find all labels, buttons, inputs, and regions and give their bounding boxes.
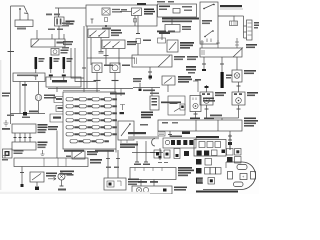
wire resistor feed vertical — [243, 16, 245, 38]
headlamp left bulb — [94, 65, 100, 71]
junction dark dot — [149, 76, 153, 79]
wire drop2 — [36, 182, 38, 186]
heater ctl marks2 — [152, 101, 158, 103]
flasher F1 body — [102, 8, 110, 15]
fuse F62 label — [87, 133, 92, 135]
fuse F54 label — [112, 126, 117, 128]
small box pair dot — [156, 152, 159, 156]
dimmer switch label2 — [111, 32, 122, 34]
connector stub C101 — [56, 106, 63, 112]
wire hvac drop3 — [229, 131, 231, 140]
ignition main relay contact — [121, 124, 130, 136]
label left col wires2 — [62, 25, 69, 27]
motor M2 body — [232, 92, 245, 105]
gauge dark dot — [163, 189, 167, 192]
buzzer label — [61, 50, 69, 52]
wire resistor stub1 — [244, 25, 247, 27]
inline fuse label — [143, 40, 151, 42]
wire center vertical x87 — [86, 26, 88, 88]
panel row2 dark — [196, 159, 202, 165]
hvac inner mark b — [172, 122, 178, 124]
label small left4 — [140, 124, 148, 126]
hvac label right r2 — [244, 120, 258, 122]
relay K1 label2 — [180, 45, 193, 47]
wire link A down — [35, 69, 37, 73]
ac drop1 end dark — [202, 69, 206, 71]
wiper lower label2 — [128, 181, 140, 183]
indicator lamp cross — [59, 174, 64, 179]
label right col x188 b — [187, 59, 196, 61]
hvac wide box — [158, 120, 242, 131]
panel lobe left edge — [225, 162, 227, 168]
ignition switch SW1 bars2 — [60, 19, 62, 25]
flasher relay contact — [32, 174, 41, 181]
cluster bottom labels — [138, 181, 147, 183]
wiper motor inner dot — [109, 183, 112, 186]
label ac harness — [143, 90, 155, 92]
fusible link C bar — [63, 57, 66, 69]
blower motor circle — [193, 103, 198, 108]
label on left vertical — [2, 93, 10, 95]
drop1 tick — [20, 172, 24, 174]
convenience center label col2 — [38, 127, 48, 129]
module inner box — [173, 9, 180, 14]
connector strip divider — [54, 39, 56, 47]
motor M1 label2 — [215, 95, 224, 97]
drop2 dark dot — [35, 187, 39, 191]
fuse symbol — [105, 18, 108, 22]
link A connector tick — [34, 75, 38, 77]
wire relay top label2 — [168, 31, 175, 33]
motor M1 rotor dot — [206, 100, 208, 102]
wire cc drop1 — [14, 133, 16, 142]
bus box divider1 — [43, 158, 45, 167]
resistor assembly box — [168, 96, 185, 115]
fuse F64 label — [112, 133, 117, 135]
headlamp right box — [110, 63, 120, 73]
relay K2 label — [178, 76, 191, 78]
fuse F32 label — [87, 112, 92, 114]
bulkhead vertical a tick — [82, 67, 86, 69]
wire stair from left a — [71, 48, 84, 78]
fuse F72 — [83, 140, 90, 143]
gauge lamp a — [136, 187, 141, 192]
wire relay drop — [161, 33, 163, 40]
wire x146 upper — [145, 141, 147, 153]
fuse F44 — [104, 119, 111, 122]
pair tick a — [106, 158, 110, 160]
labels under ticks2 — [143, 164, 150, 166]
wire wiper switch down — [134, 16, 136, 27]
m2 feed tick — [237, 85, 241, 87]
wire blower motor down — [195, 112, 197, 119]
fusible link A label — [39, 58, 45, 60]
fuse F32 — [79, 112, 86, 115]
fuse F41 label — [74, 119, 79, 121]
label top tiny a — [7, 115, 14, 117]
wire drop x146 — [145, 153, 147, 163]
tick near block — [120, 105, 125, 111]
tiny marks left hazard — [66, 156, 71, 158]
ground G1 label — [2, 128, 10, 130]
relay K1 coil box — [158, 38, 166, 43]
relay cluster dark dot — [222, 150, 226, 154]
fuse F54 — [104, 126, 111, 129]
panel slot c — [215, 142, 221, 148]
relay K2 label2 — [178, 79, 192, 81]
wire horizontal y88 right — [133, 87, 160, 89]
cc lower label — [38, 142, 48, 144]
blower resistor label3 — [254, 27, 258, 29]
wire bulkhead down — [56, 87, 58, 92]
wire resistor stub3 — [244, 37, 247, 39]
fuse F53 label — [100, 126, 105, 128]
label under washer — [159, 32, 170, 34]
cluster label right r4 — [178, 175, 188, 177]
ticks left of bus — [3, 153, 7, 159]
wire drop x137 — [136, 153, 138, 163]
ignition switch label — [66, 21, 75, 23]
drop1 arrow dark — [21, 184, 24, 187]
panel slot a — [199, 142, 205, 148]
fuse F34 — [104, 112, 111, 115]
wire mid col from junction — [24, 82, 26, 114]
wire relay top label — [157, 31, 166, 33]
heater label long — [161, 102, 181, 104]
heater ctl marks3 — [152, 104, 158, 106]
dimmer contact 1 — [90, 31, 97, 37]
lobe slot oval a — [237, 165, 247, 170]
wire link B down — [50, 69, 52, 73]
fuse F41 — [66, 119, 73, 122]
ignition switch SW1 bars — [56, 19, 58, 25]
ground G2 symbol — [41, 150, 45, 156]
headlamp contact 2 — [113, 42, 120, 48]
ac long box bracket — [202, 50, 204, 55]
fuse F11 — [66, 98, 73, 101]
convenience center box lower — [12, 142, 36, 150]
fuse F33 label — [100, 112, 105, 114]
ground G1 symbol — [4, 120, 9, 126]
fuse F21 label — [74, 105, 79, 107]
wiper switch SW2 contact — [133, 10, 140, 15]
panel row4 inner dark — [210, 179, 213, 182]
junction block right box — [46, 77, 81, 87]
motor M1 terminals — [202, 93, 205, 95]
instrument bus box — [14, 158, 88, 167]
heater ctl small box — [150, 96, 159, 110]
hvac divider2 — [217, 120, 219, 131]
fuse F73 label — [104, 140, 109, 142]
wire cc drop2 — [19, 133, 21, 142]
fusible link B bar — [50, 57, 53, 69]
connector strip box lower left — [31, 39, 65, 47]
label to turn signal2 — [60, 173, 72, 175]
label dark band row2 — [162, 21, 192, 23]
long connector label right — [174, 56, 185, 58]
wire module down — [171, 17, 173, 25]
wire pair down b — [117, 150, 119, 178]
wiper lower label3 — [128, 184, 137, 186]
relay K1 label — [180, 42, 194, 44]
bulkhead label dark — [52, 80, 67, 82]
bus box divider2 — [57, 158, 59, 167]
flasher label — [46, 173, 57, 175]
panel row2 outline — [205, 159, 212, 166]
wire col c from junction — [38, 82, 40, 95]
ignition sw connector circle — [35, 94, 41, 100]
fuse F43 label — [100, 119, 105, 121]
wire horizontal collector — [11, 113, 46, 115]
fuse F24 — [104, 105, 111, 108]
label HOT AT ALL TIMES top — [137, 3, 146, 5]
washer pump label — [182, 26, 191, 28]
motor M1 rotor — [204, 98, 210, 104]
headlamp switch label — [127, 41, 137, 43]
lamp right cap tick — [112, 80, 119, 82]
module label d — [184, 10, 192, 12]
lamp left cap tick — [94, 80, 101, 82]
hvac drop1 tick — [168, 134, 172, 136]
contact dot d — [212, 30, 214, 32]
panel row3 strip b — [210, 168, 216, 175]
resistor assembly label — [170, 103, 178, 105]
cluster label right r1 — [178, 167, 192, 169]
junction dot k2 — [139, 89, 142, 92]
gauge lamp a cross — [138, 189, 141, 192]
panel dark fuse row c outline — [212, 150, 218, 156]
buzzer label2 — [61, 52, 68, 54]
x137 tick — [135, 161, 139, 163]
fuse F14 label — [112, 98, 117, 100]
fuse F72 label — [91, 140, 96, 142]
node antenna stub — [19, 10, 21, 15]
wiper motor inner box — [107, 181, 114, 187]
fuse F52 — [79, 126, 86, 129]
motor M1 body — [200, 92, 213, 105]
cc lower label2 — [38, 144, 47, 146]
assembly connector square — [180, 104, 185, 110]
wire strip left — [150, 152, 155, 154]
contact dot b — [213, 4, 215, 6]
x160 dark dot — [159, 156, 162, 159]
link B connector tick — [49, 75, 53, 77]
gauges label right2 — [174, 189, 186, 191]
fuse F53 — [92, 126, 99, 129]
headlamp contact 1 — [104, 42, 111, 48]
label row under motor2 — [204, 118, 214, 120]
label pnk blk — [29, 111, 38, 113]
ticks pair x162 — [158, 162, 168, 164]
fuse F51 — [66, 126, 73, 129]
wiper motor inner mark — [117, 181, 121, 186]
blower resistor label — [254, 22, 259, 24]
horn H1 legs — [20, 13, 28, 20]
bus label right2 — [90, 162, 101, 164]
hvac drop2 dark label — [182, 132, 190, 135]
resistor sym marks — [159, 133, 164, 135]
label on left vertical2 — [2, 95, 9, 97]
wire switch output down — [58, 26, 60, 39]
wire dimmer drop2 — [100, 38, 102, 52]
label wire gauge — [121, 9, 127, 11]
wiper switch label block — [144, 9, 154, 11]
relay K1 box — [167, 40, 178, 52]
wiper fuse tick — [136, 33, 140, 35]
fuse F61 label — [74, 133, 79, 135]
panel caption bottom — [196, 191, 238, 193]
cluster wide box — [130, 168, 176, 180]
wiper lower label — [128, 179, 139, 181]
panel dark fuse row b — [204, 151, 209, 156]
wire m2 feed — [238, 82, 240, 92]
wire x137 upper — [136, 141, 138, 153]
panel row4 outline box — [208, 178, 215, 185]
motor M2 terminal2 — [239, 93, 242, 95]
blower motor marks — [193, 98, 196, 101]
blower resistor R1 body — [247, 20, 253, 40]
steering column box — [86, 5, 157, 26]
wire x152 drop — [151, 88, 153, 97]
fuse F23 — [92, 105, 99, 108]
fuse block outline — [63, 92, 116, 149]
strip dark sq a — [171, 140, 175, 145]
label motors bus — [210, 115, 222, 117]
label caption left dark — [128, 132, 146, 134]
fuse block grid — [64, 98, 117, 152]
M2 tick — [237, 108, 241, 110]
label left of k2 — [133, 78, 142, 80]
connector C bracket — [152, 139, 155, 147]
wire top stub — [234, 15, 244, 17]
long connector inner marks — [135, 58, 137, 65]
fuse panel upper box — [194, 140, 226, 157]
connector circle label — [44, 95, 55, 97]
label to turn signal — [60, 171, 74, 173]
inline fuse symbol — [136, 39, 141, 44]
wire ignition switch drop — [58, 8, 60, 17]
headlamp left label — [104, 65, 113, 67]
wire ac drop3 — [236, 57, 238, 70]
washer pump box — [165, 25, 180, 33]
long connector box mid — [132, 55, 172, 67]
capacitor tick4 — [29, 137, 32, 139]
label top tiny b — [22, 117, 30, 119]
fuse F22 label — [87, 105, 92, 107]
ignition main relay pin marks — [121, 140, 127, 143]
indicator lamp circle — [58, 173, 65, 180]
connector C2 hatch — [232, 21, 237, 26]
motor M1 terminal2 — [207, 93, 210, 95]
fusible link D bar — [61, 57, 63, 59]
wire x160 vertical — [159, 148, 161, 160]
wire ac drop1 — [203, 57, 205, 70]
strip dark sq d — [189, 140, 193, 145]
fuse F22 — [79, 105, 86, 108]
wire stair label2 — [63, 44, 72, 46]
lobe slot oval e — [234, 182, 244, 187]
label left of k2 b — [133, 81, 141, 83]
label fusible near cc2 — [48, 129, 57, 131]
blower motor label2 — [203, 100, 215, 102]
wire left main vertical — [10, 6, 12, 124]
resistor sym small — [158, 132, 165, 137]
wire below long box — [149, 67, 151, 80]
assembly connector dot — [181, 106, 184, 109]
blower motor tall box — [190, 96, 201, 112]
blower motor dot — [195, 105, 197, 107]
label top tiny right — [157, 1, 165, 3]
ignition switch lower label b — [57, 29, 63, 31]
label dark pair mid2 — [186, 69, 196, 71]
lamp ground smudge — [58, 189, 66, 191]
label terminal B — [46, 14, 52, 16]
hvac inner mark a — [162, 122, 168, 124]
connector strip arrow — [31, 40, 39, 48]
relay K2 label3 — [178, 81, 189, 83]
label under junction — [102, 28, 111, 30]
flasher label2 — [46, 175, 56, 177]
fuse F11 label — [74, 98, 79, 100]
fusible link B label — [54, 58, 60, 60]
wire lamp right down — [114, 73, 116, 93]
panel row4 dark slotted — [196, 178, 203, 184]
module label c — [182, 6, 192, 8]
ticks above ac box c — [235, 38, 239, 48]
wire into panel — [229, 134, 231, 150]
flasher label — [112, 9, 120, 10]
relay K1 label3 — [180, 47, 190, 49]
fuse F13 label — [100, 98, 105, 100]
module label b — [159, 9, 167, 11]
flasher F1 cross — [103, 9, 109, 14]
wire cc drop4 — [29, 133, 31, 142]
panel slot b — [207, 142, 213, 148]
wire m1 feed — [206, 85, 208, 92]
m1 feed dark tick — [205, 86, 209, 88]
motor M2 terminals — [234, 93, 237, 95]
connector stub C102 — [50, 114, 63, 122]
fuse F44 label — [112, 119, 117, 121]
label terminal S — [54, 14, 60, 16]
ticks above ac box b — [216, 40, 220, 48]
long connector label right2 — [174, 59, 183, 61]
motor M1 label — [215, 92, 226, 94]
fuse F34 label — [112, 112, 117, 114]
dimmer switch box — [88, 29, 109, 38]
label right col x188 — [187, 56, 198, 58]
node T terminal — [91, 19, 94, 24]
fuse F23 label — [100, 105, 105, 107]
horn relay small box — [3, 149, 13, 158]
ignition switch SW1 — [55, 17, 65, 26]
panel row3 strip a — [205, 168, 211, 175]
tall narrow box — [174, 149, 180, 159]
relay K2 contact — [164, 78, 172, 84]
wire k2 down — [167, 85, 169, 92]
cluster inner ticks — [135, 168, 162, 172]
motor M2 label — [247, 92, 258, 94]
label dark pair mid3 — [188, 72, 195, 74]
motor M2 rotor dot — [238, 100, 240, 102]
indicator lamp label — [67, 174, 74, 176]
blower switch label2 — [202, 23, 210, 25]
blower switch label — [202, 20, 212, 22]
blower resistor R1 elements — [248, 23, 252, 35]
label left stub — [195, 79, 201, 81]
small box pair b — [164, 150, 170, 158]
motor M2 rotor — [236, 98, 242, 104]
